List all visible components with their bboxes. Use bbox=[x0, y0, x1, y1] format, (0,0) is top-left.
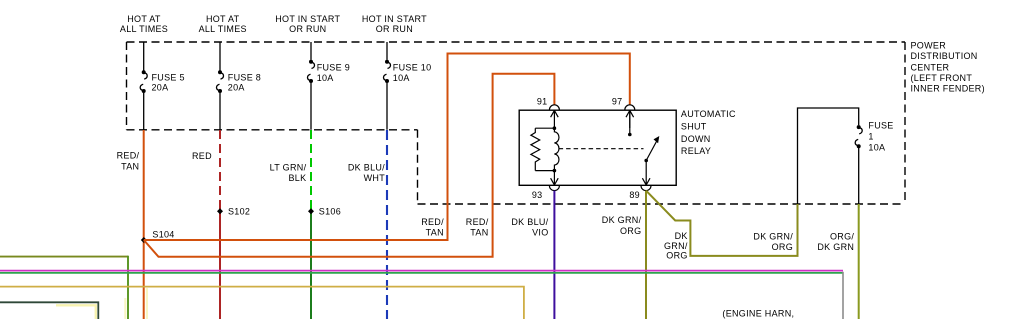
pin 97 contact dot bbox=[628, 133, 632, 137]
splice S102 bbox=[217, 208, 223, 214]
fuse F5 symbol bbox=[140, 73, 147, 91]
svg-text:DISTRIBUTION: DISTRIBUTION bbox=[911, 51, 978, 61]
svg-text:FUSE 9: FUSE 9 bbox=[317, 63, 350, 73]
wire DK GRN L-shape left horizontal bbox=[0, 256, 128, 258]
svg-text:DK GRN: DK GRN bbox=[817, 242, 854, 252]
svg-text:S104: S104 bbox=[152, 229, 174, 239]
svg-text:FUSE: FUSE bbox=[868, 121, 893, 131]
svg-text:89: 89 bbox=[629, 190, 640, 200]
svg-text:ORG: ORG bbox=[666, 251, 687, 261]
svg-text:TAN: TAN bbox=[470, 227, 488, 237]
svg-text:HOT AT: HOT AT bbox=[127, 14, 161, 24]
svg-text:FUSE 5: FUSE 5 bbox=[152, 72, 185, 82]
wire RED dashed from fuse 8 bbox=[219, 130, 221, 209]
svg-text:ORG/: ORG/ bbox=[830, 231, 854, 241]
wire DK GRN L-shape left vertical bbox=[127, 256, 129, 319]
pale yellow highlight along RED/TAN bottom bbox=[146, 288, 148, 319]
svg-text:VIO: VIO bbox=[532, 227, 548, 237]
svg-text:SHUT: SHUT bbox=[681, 121, 707, 131]
svg-text:BLK: BLK bbox=[288, 173, 306, 183]
svg-text:RED/: RED/ bbox=[466, 217, 489, 227]
svg-text:CENTER: CENTER bbox=[911, 62, 950, 72]
svg-text:10A: 10A bbox=[393, 73, 410, 83]
wire RED/TAN branch S104 to relay pin 91 bbox=[144, 74, 555, 257]
wire RED/TAN branch S104 to relay pin 97 bbox=[144, 54, 630, 241]
wire black feed for fuse F10 bbox=[386, 42, 388, 130]
fuse F1 symbol bbox=[855, 128, 862, 146]
svg-text:INNER FENDER): INNER FENDER) bbox=[911, 84, 985, 94]
svg-text:TAN: TAN bbox=[426, 227, 444, 237]
wire LT GRN/BLK dashed from fuse 9 bbox=[310, 130, 312, 209]
svg-text:RED: RED bbox=[192, 151, 212, 161]
wire black feed for fuse F9 bbox=[310, 42, 312, 130]
svg-text:FUSE 8: FUSE 8 bbox=[228, 72, 261, 82]
splice S104 bbox=[141, 237, 147, 243]
pin 91 arrow bbox=[551, 110, 559, 128]
pin 93 arrow bbox=[551, 171, 559, 185]
pin 97 arrow bbox=[626, 110, 634, 128]
svg-text:1: 1 bbox=[868, 132, 873, 142]
svg-text:FUSE 10: FUSE 10 bbox=[393, 63, 432, 73]
svg-text:WHT: WHT bbox=[364, 173, 386, 183]
svg-text:(ENGINE HARN,: (ENGINE HARN, bbox=[722, 309, 794, 319]
op: ASD relay box U1 bbox=[519, 110, 676, 185]
svg-text:DOWN: DOWN bbox=[681, 134, 711, 144]
svg-text:HOT AT: HOT AT bbox=[206, 14, 240, 24]
wire DK BLU/VIO from pin 93 bbox=[553, 191, 555, 319]
svg-text:10A: 10A bbox=[317, 73, 334, 83]
pin 97 socket bbox=[625, 105, 635, 110]
svg-text:ORG: ORG bbox=[772, 242, 793, 252]
relay coil node top bbox=[553, 126, 557, 130]
svg-text:RED/: RED/ bbox=[117, 151, 140, 161]
coil inside relay bbox=[554, 128, 559, 170]
svg-text:DK BLU/: DK BLU/ bbox=[511, 217, 548, 227]
relay switch blade bbox=[644, 159, 648, 163]
svg-text:POWER: POWER bbox=[911, 40, 947, 50]
svg-text:93: 93 bbox=[532, 190, 543, 200]
wire black feed for fuse F5 bbox=[143, 42, 145, 130]
pale yellow highlight along DK GRN bottom bbox=[124, 298, 126, 319]
fuse F10 symbol bbox=[383, 62, 390, 80]
power distribution center label bbox=[911, 40, 985, 93]
svg-text:S106: S106 bbox=[319, 206, 341, 216]
svg-text:ORG: ORG bbox=[620, 226, 641, 236]
wire DK GRN dark corner bottom-left bbox=[0, 302, 98, 319]
wire DK GRN/ORG branch from pin 89 to fuse 1 bbox=[646, 191, 798, 256]
power distribution center dashed outline bbox=[127, 42, 906, 204]
svg-text:OR RUN: OR RUN bbox=[376, 24, 413, 34]
svg-text:RED/: RED/ bbox=[421, 217, 444, 227]
svg-text:DK BLU/: DK BLU/ bbox=[348, 162, 385, 172]
wire ORG/DK GRN from fuse 1 bbox=[858, 204, 860, 319]
svg-text:ALL TIMES: ALL TIMES bbox=[120, 24, 168, 34]
resistor inside relay bbox=[531, 128, 540, 170]
svg-text:20A: 20A bbox=[152, 83, 169, 93]
svg-text:20A: 20A bbox=[228, 83, 245, 93]
relay mechanical dashed link bbox=[559, 148, 644, 150]
svg-text:(LEFT FRONT: (LEFT FRONT bbox=[911, 73, 973, 83]
wire black feed for fuse F8 bbox=[219, 42, 221, 130]
svg-text:LT GRN/: LT GRN/ bbox=[270, 162, 307, 172]
wire DK GRN solid below splice S106 bbox=[310, 209, 312, 319]
wire DK YEL L-shape bbox=[0, 287, 524, 319]
svg-text:S102: S102 bbox=[228, 206, 250, 216]
relay coil node bottom bbox=[553, 169, 557, 173]
svg-text:DK GRN/: DK GRN/ bbox=[602, 215, 642, 225]
wire RED/TAN from fuse 5 vertical bbox=[143, 130, 145, 319]
pin 89 socket bbox=[641, 186, 651, 191]
wire GRN horizontal bbox=[0, 272, 843, 274]
wire RED solid below splice S102 bbox=[219, 209, 221, 319]
svg-text:HOT IN START: HOT IN START bbox=[362, 14, 427, 24]
svg-text:GRN/: GRN/ bbox=[664, 241, 688, 251]
svg-text:ALL TIMES: ALL TIMES bbox=[199, 24, 247, 34]
svg-text:AUTOMATIC: AUTOMATIC bbox=[681, 109, 736, 119]
svg-text:TAN: TAN bbox=[121, 161, 139, 171]
pin 89 arrow bbox=[642, 161, 650, 186]
svg-text:97: 97 bbox=[612, 96, 623, 106]
fuse 1 black wire loop inside PDC bbox=[798, 108, 859, 204]
wire DK BLU/WHT dashed from fuse 10 bbox=[386, 130, 388, 319]
wire VIO horizontal bbox=[0, 270, 843, 272]
fuse F9 symbol bbox=[307, 62, 314, 80]
pin 91 socket bbox=[549, 105, 559, 110]
svg-text:91: 91 bbox=[537, 96, 548, 106]
svg-text:DK: DK bbox=[675, 231, 688, 241]
fuse F8 symbol bbox=[216, 73, 223, 91]
svg-text:DK GRN/: DK GRN/ bbox=[753, 231, 793, 241]
svg-text:HOT IN START: HOT IN START bbox=[275, 14, 340, 24]
pin 93 socket bbox=[549, 186, 559, 191]
wire GRY vertical at corner bbox=[842, 272, 844, 319]
svg-text:10A: 10A bbox=[868, 142, 885, 152]
wire DK GRN/ORG from pin 89 straight down bbox=[645, 191, 647, 319]
splice S106 bbox=[308, 208, 314, 214]
pale yellow highlight inner L bottom-left bbox=[56, 305, 96, 319]
svg-text:RELAY: RELAY bbox=[681, 146, 711, 156]
svg-text:OR RUN: OR RUN bbox=[289, 24, 326, 34]
